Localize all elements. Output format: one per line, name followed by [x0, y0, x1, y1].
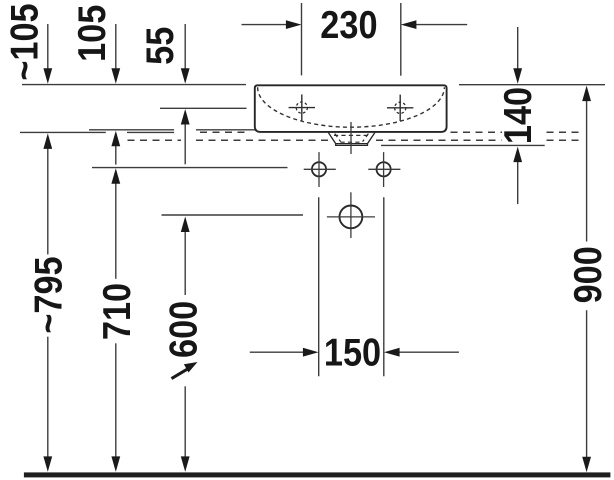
svg-text:710: 710: [95, 283, 139, 340]
svg-text:140: 140: [496, 87, 540, 144]
svg-text:600: 600: [161, 301, 205, 358]
svg-text:105: 105: [70, 5, 114, 62]
svg-text:150: 150: [324, 330, 381, 374]
svg-text:~795: ~795: [26, 256, 70, 333]
svg-text:230: 230: [320, 3, 377, 47]
svg-text:~105: ~105: [2, 3, 46, 80]
svg-text:900: 900: [566, 246, 610, 303]
svg-text:55: 55: [138, 27, 182, 65]
